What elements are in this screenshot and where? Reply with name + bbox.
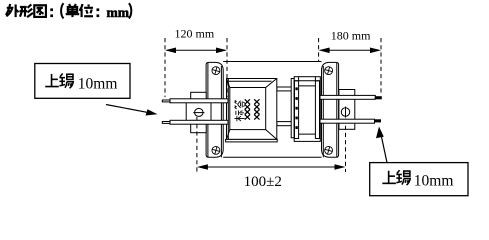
svg-text:100±2: 100±2 <box>244 174 282 190</box>
coil label 标 <box>235 110 245 121</box>
dim100 dashed left <box>196 117 198 172</box>
title char 图 <box>34 5 46 17</box>
left callout char 上 <box>45 74 59 87</box>
title colon 2 <box>97 8 100 17</box>
core stub upper <box>277 87 295 91</box>
screw right-top <box>324 66 334 76</box>
svg-text:120 mm: 120 mm <box>175 27 215 41</box>
left callout char 锡 <box>59 74 73 89</box>
keyhole right <box>341 107 349 118</box>
title char 外 <box>6 4 19 17</box>
title colon <box>50 8 53 17</box>
lamination ticks <box>295 87 297 129</box>
coil bevel top-right <box>266 79 277 88</box>
coil left rim line <box>227 79 229 140</box>
lamination outer <box>294 77 320 142</box>
lead left-lower <box>170 120 228 124</box>
left terminal plate bottom tab <box>191 120 207 132</box>
lamination window lines <box>299 86 316 134</box>
title char 单 <box>66 4 80 17</box>
dim180 dashed right <box>380 38 382 95</box>
screw left-top <box>211 66 221 76</box>
title paren close <box>129 3 131 18</box>
coil outer box <box>227 79 277 140</box>
lead left-lower tip <box>162 122 170 124</box>
dim120 dashed right <box>226 38 228 97</box>
lamination top cap line <box>294 80 320 82</box>
dim100 dashed right <box>345 119 347 173</box>
lamination right strip <box>315 81 319 139</box>
screw left-bottom <box>211 146 221 156</box>
left callout box <box>35 64 130 99</box>
lead right-upper <box>320 95 375 99</box>
coil bottom flange <box>226 139 278 142</box>
title char 位 <box>80 4 94 17</box>
title char 形 <box>20 4 34 17</box>
right terminal plate <box>339 90 355 130</box>
coil label 签 <box>235 100 245 109</box>
left callout arrow <box>106 105 150 113</box>
left terminal plate middle <box>186 102 211 121</box>
lead left-upper tip <box>162 100 170 102</box>
top rail <box>223 61 321 63</box>
left mounting bracket <box>206 62 223 157</box>
lamination flange <box>291 79 294 138</box>
coil lid line <box>227 80 272 82</box>
dim120 arrowheads <box>165 48 176 54</box>
title paren open <box>61 3 63 18</box>
leads drawn on top <box>162 95 381 124</box>
left bracket inner fold lines <box>207 63 209 157</box>
lead right-lower tip <box>375 120 381 122</box>
keyhole left <box>193 108 204 116</box>
right mounting bracket <box>322 62 339 157</box>
coil bevel bottom-left <box>227 130 230 140</box>
dim180 arrow line <box>321 49 379 51</box>
right callout box <box>370 163 468 196</box>
dim180 dashed left <box>318 38 320 61</box>
screws <box>211 66 333 156</box>
svg-text:180 mm: 180 mm <box>331 28 371 42</box>
svg-text:10mm: 10mm <box>414 172 454 189</box>
right callout char 上 <box>382 171 396 184</box>
lead right-upper tip <box>375 97 381 99</box>
coil inner frame <box>230 88 266 130</box>
right bracket inner fold lines <box>336 63 338 157</box>
core stub lower <box>277 122 295 126</box>
right callout arrow <box>381 134 387 163</box>
dim100 arrowheads <box>197 164 208 170</box>
lead left-upper <box>170 99 228 103</box>
dim180 arrowheads <box>319 48 330 54</box>
svg-text:mm: mm <box>107 5 130 20</box>
lamination left strip <box>295 81 299 139</box>
right callout char 锡 <box>396 170 410 185</box>
left terminal plate top tab <box>191 92 207 102</box>
lead right-lower <box>320 119 375 123</box>
coil bevel top-left <box>227 79 230 88</box>
dim120 dashed left <box>164 38 166 97</box>
lamination corner stubs <box>299 77 316 81</box>
dim120 arrow line <box>167 49 225 51</box>
coil label X grid <box>245 99 260 119</box>
screw right-bottom <box>324 146 334 156</box>
coil bevel bottom-right <box>266 130 277 140</box>
bottom rail <box>223 156 321 158</box>
svg-text:10mm: 10mm <box>78 76 118 93</box>
dim100 arrow line <box>199 166 344 168</box>
